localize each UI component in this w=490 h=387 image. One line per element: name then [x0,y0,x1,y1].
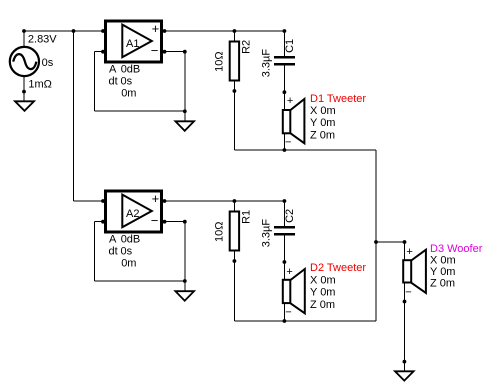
pin A2 +out [163,199,167,203]
wire D1 bottom pin [283,134,285,151]
wire A1 feedback bottom [95,110,185,112]
op-amp block A1 [106,21,162,62]
svg-text:0s: 0s [121,76,133,88]
svg-text:2.83V: 2.83V [28,33,57,45]
resistor R1 [230,212,239,251]
wire C1 top pin [283,31,285,56]
capacitor C2 [274,227,295,234]
svg-text:X 0m: X 0m [310,274,336,286]
svg-text:D2 Tweeter: D2 Tweeter [310,262,366,274]
svg-text:0dB: 0dB [121,63,141,75]
ground at source [15,101,34,111]
ground at A1 feedback [175,121,194,131]
label A 0dB (A2) [109,233,140,245]
svg-text:10Ω: 10Ω [214,51,226,71]
junction D2 bottom [283,319,287,323]
svg-text:A: A [109,63,117,75]
junction tap to A2 [72,29,76,33]
wire A2 output to C2 top [162,200,284,202]
svg-text:X 0m: X 0m [430,255,456,267]
svg-text:A2: A2 [126,208,139,220]
wire D2 bottom rail [234,320,376,322]
svg-text:+: + [406,246,412,258]
wire A1 -out vertical [184,52,186,111]
junction C2 top [283,199,287,203]
svg-text:+: + [152,191,160,206]
wire D3 top pin [404,242,406,260]
label dt 0s (A1) [109,76,133,88]
speaker D3 woofer [403,250,426,293]
pin D3 top [403,240,407,244]
AC voltage source VG1 [10,47,39,76]
svg-text:R2: R2 [240,40,252,54]
wire to A2 +in [74,200,106,202]
wire A1 feedback left vertical [94,52,96,111]
capacitor C1 [274,57,295,64]
svg-text:−: − [151,43,159,58]
wire A2 feedback left vertical [94,222,96,281]
pin A1 -in [101,50,105,54]
wire A2 feedback bottom [95,280,185,282]
svg-text:3.3µF: 3.3µF [260,219,272,248]
op-amp block A2 [106,191,162,232]
wire A1 -out stub [163,51,185,53]
junction woofer tap [374,240,378,244]
wire C2 bottom to D2 [283,236,285,281]
speaker D1 tweeter [283,99,305,143]
svg-text:dt: dt [109,76,118,88]
svg-text:Y 0m: Y 0m [310,287,335,299]
svg-text:C1: C1 [284,39,296,53]
svg-text:A1: A1 [126,38,139,50]
pin R2 bottom [233,89,237,93]
wire top rail source to A1 +in [24,30,105,32]
svg-text:Z 0m: Z 0m [430,278,455,290]
wire D2 bottom pin [283,302,285,321]
svg-text:0s: 0s [121,246,133,258]
svg-text:0m: 0m [121,258,136,270]
wire D1 bottom rail [234,149,376,151]
wire A2 -in stub [95,221,104,223]
junction C1 top [283,29,287,33]
wire A2 ground stem [184,281,186,291]
wire A1 -in stub [95,51,104,53]
svg-text:Y 0m: Y 0m [430,266,455,278]
svg-text:+: + [152,21,160,36]
pin A2 -out [163,220,167,224]
speaker D2 tweeter [283,269,305,313]
corner A1 -out [183,50,187,54]
wire D3 bottom pin to ground [404,283,406,372]
svg-text:0m: 0m [121,88,136,100]
wire source top pin [23,31,25,47]
svg-text:D3 Woofer: D3 Woofer [430,243,483,255]
svg-text:C2: C2 [284,209,296,223]
svg-text:A: A [109,233,117,245]
wire source bottom pin [23,76,25,101]
svg-text:1mΩ: 1mΩ [28,78,52,90]
wire R1 bottom pin to rail [233,251,235,322]
corner A2 -out [183,220,187,224]
wire C2 top pin [283,201,285,226]
svg-text:3.3µF: 3.3µF [260,49,272,78]
wire right vertical rail [375,150,377,321]
junction R2 top [233,29,237,33]
svg-text:dt: dt [109,246,118,258]
wire R1 top pin [233,201,235,212]
pin A1 +in [101,29,105,33]
pin ground D3 [403,360,407,364]
svg-text:Y 0m: Y 0m [310,117,335,129]
svg-text:X 0m: X 0m [310,105,336,117]
pin A1 -out [163,50,167,54]
pin A2 -in [101,220,105,224]
wire A2 -out vertical [184,222,186,281]
label dt 0s (A2) [109,246,133,258]
svg-text:10Ω: 10Ω [214,222,226,242]
svg-text:−: − [285,137,291,149]
label A 0dB (A1) [109,63,140,75]
node A2 ground [183,279,187,283]
svg-text:+: + [286,266,292,278]
svg-text:R1: R1 [240,210,252,224]
wire to D3 woofer [376,241,405,243]
ground at A2 feedback [175,291,194,301]
ground at D3 woofer [395,371,414,380]
svg-text:+: + [287,95,293,107]
svg-text:Z 0m: Z 0m [310,129,335,141]
pin R1 bottom [233,259,237,263]
node source top [22,29,26,33]
resistor R2 [230,42,239,81]
svg-text:0s: 0s [42,57,54,69]
pin source bottom [22,90,26,94]
svg-text:−: − [285,306,291,318]
wire R2 top pin [233,31,235,42]
svg-text:Z 0m: Z 0m [310,299,335,311]
wire tap down to A2 [73,31,75,201]
svg-text:−: − [151,213,159,228]
svg-text:−: − [405,286,411,298]
pin A1 +out [163,29,167,33]
wire A1 ground stem [184,111,186,122]
svg-text:D1 Tweeter: D1 Tweeter [310,93,366,105]
junction R1 top [233,199,237,203]
svg-text:0dB: 0dB [121,233,141,245]
wire A2 -out stub [163,221,185,223]
node A1 ground [183,109,187,113]
wire C1 bottom to D1 [283,66,285,111]
pin A2 +in [101,199,105,203]
wire A1 output to C1 top [162,30,284,32]
pin C1/D1 [283,90,287,94]
pin C2/D2 [283,260,287,264]
pin D3 bottom [403,300,407,304]
junction D1 bottom [283,148,287,152]
wire R2 bottom pin to rail [233,81,235,151]
